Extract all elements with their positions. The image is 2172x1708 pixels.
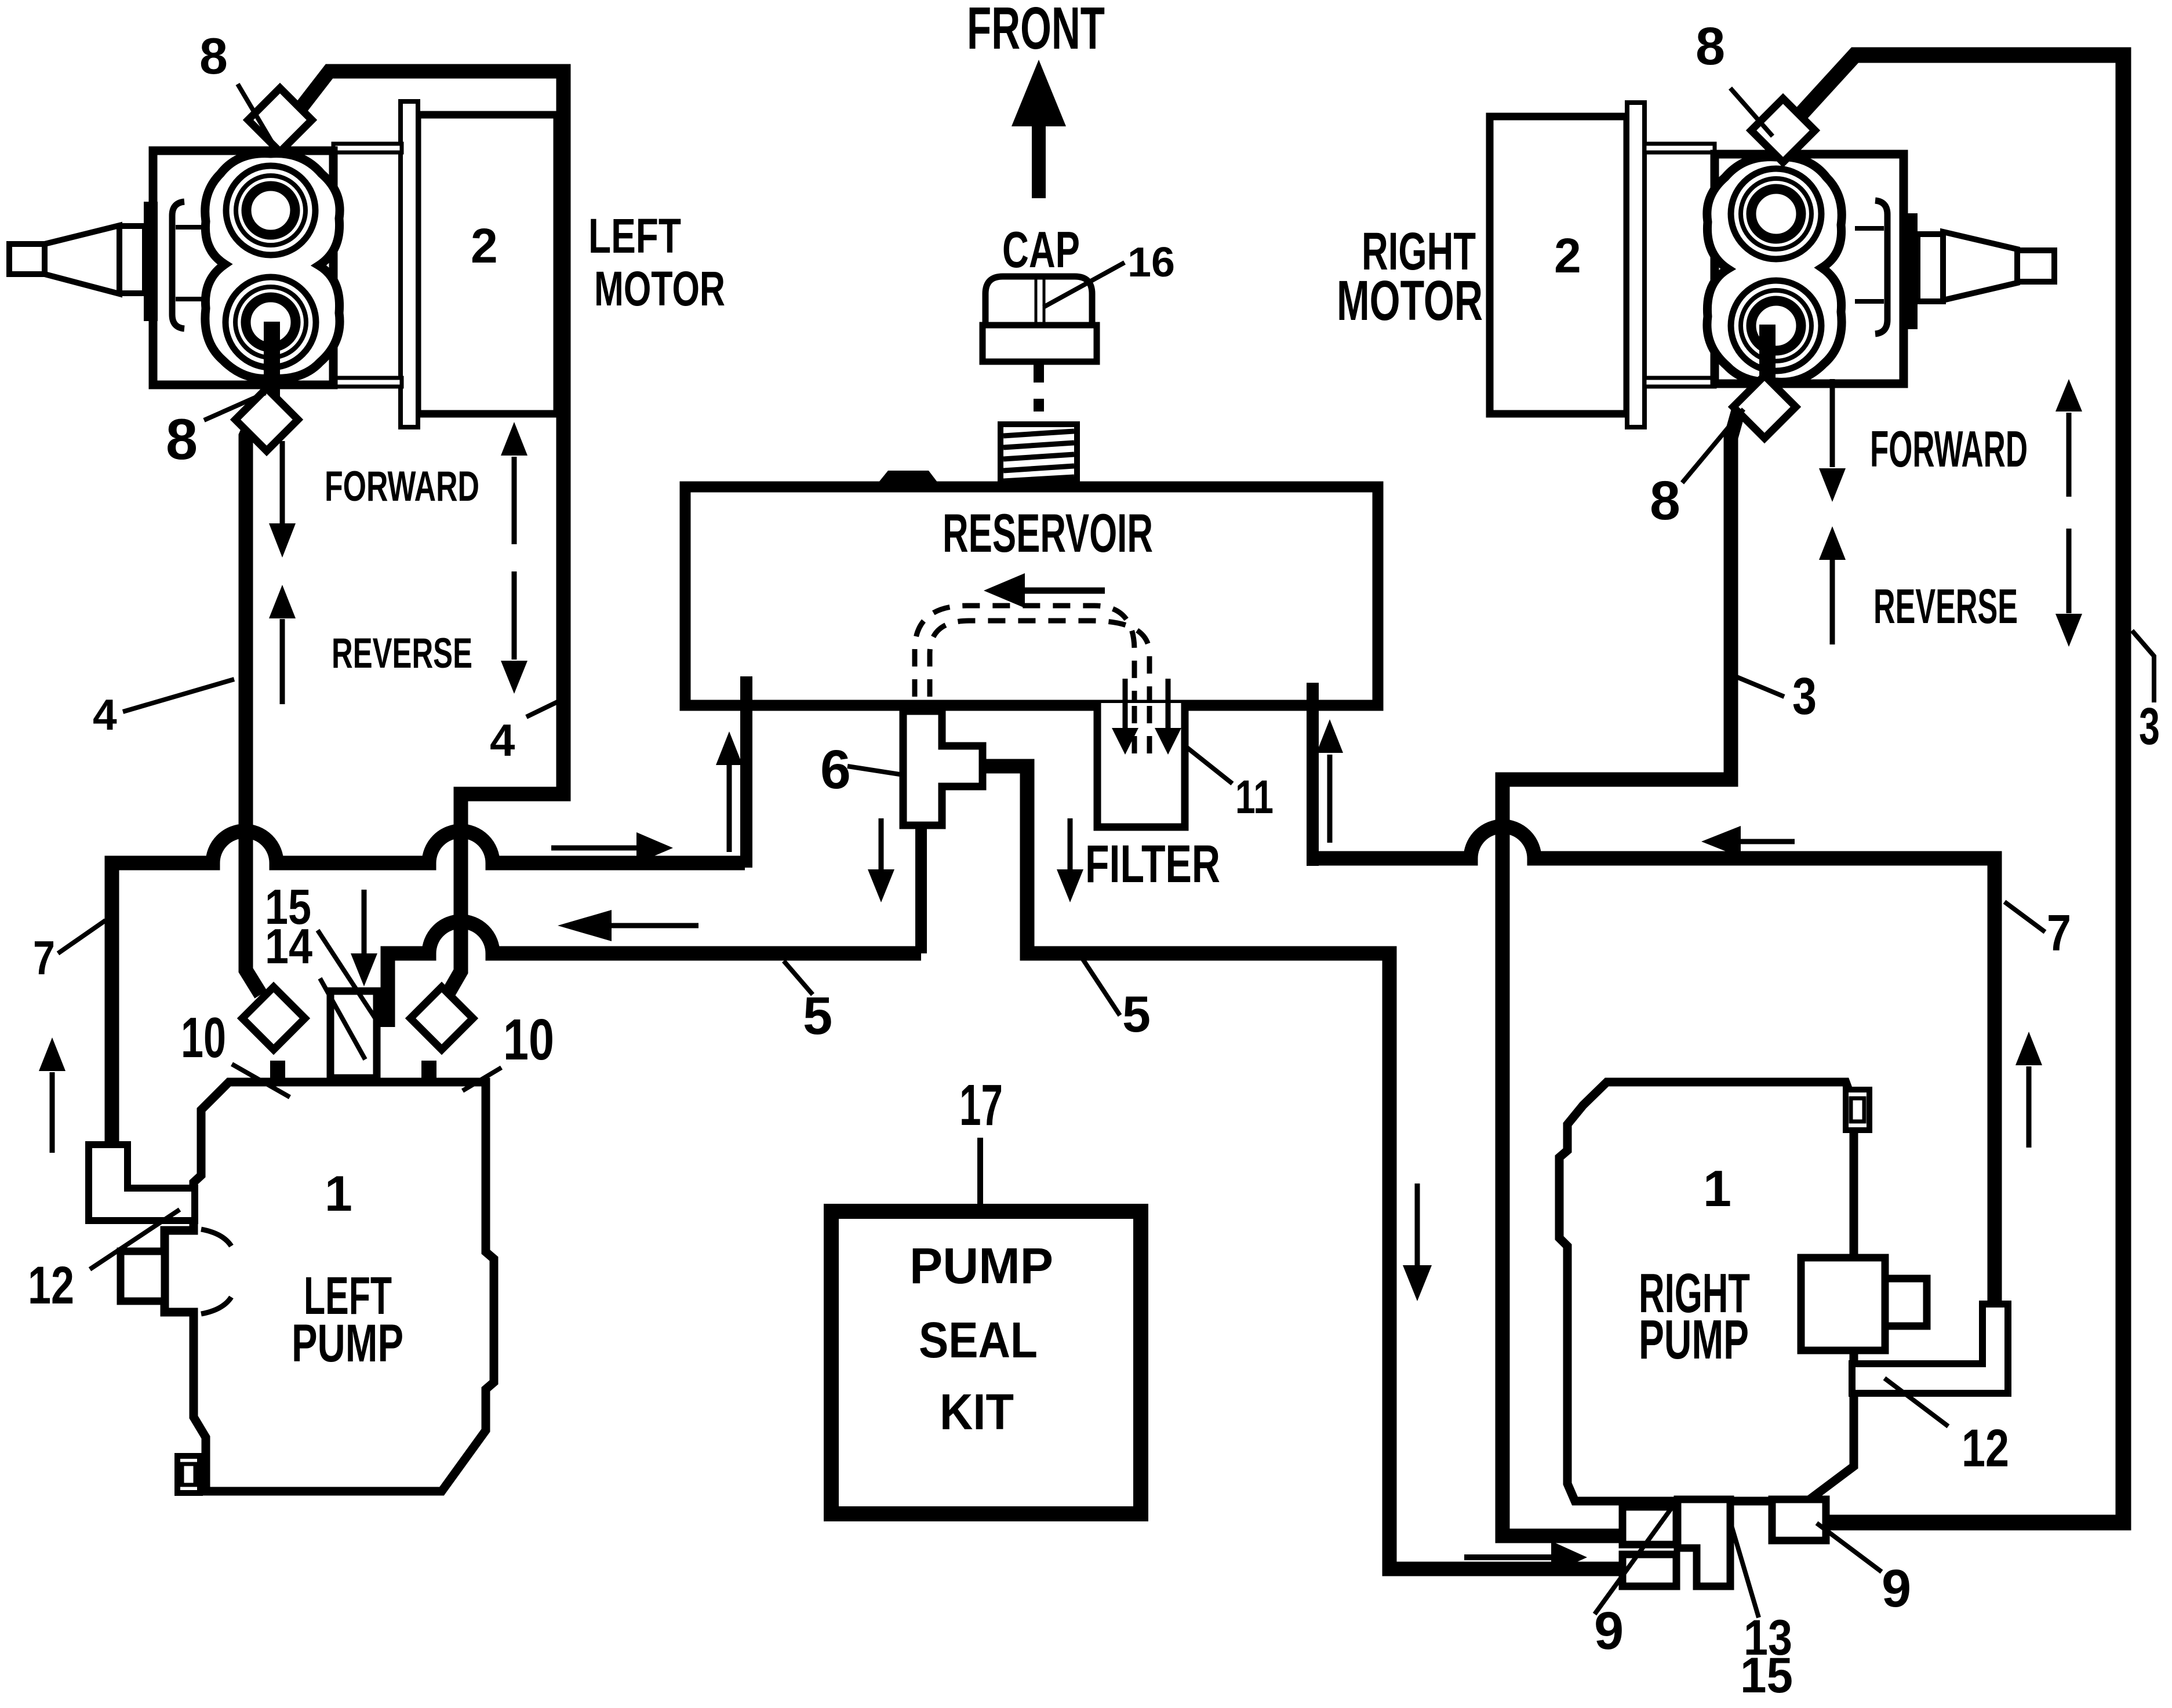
left pump fitting 10 right (410, 987, 473, 1050)
svg-text:8: 8 (166, 407, 198, 471)
svg-text:10: 10 (503, 1007, 554, 1072)
left motor bottom port rings (225, 277, 316, 367)
svg-text:2: 2 (471, 218, 498, 273)
pump seal kit box 17 (831, 1211, 1141, 1514)
forward arrow left outer (501, 422, 527, 544)
right motor axle seal band (1904, 213, 1918, 329)
svg-text:FORWARD: FORWARD (325, 463, 479, 510)
left pump elbow fitting 12 (89, 1145, 195, 1221)
filter tube 11 (1097, 703, 1185, 827)
left motor axle cone (45, 225, 119, 294)
wire hose 7 right: reservoir right port to right pump elbow 12 (1312, 826, 1995, 1310)
wire hose 3 upper: right motor top port along far right to pump bottom fitting 9 (1793, 55, 2123, 1523)
svg-text:14: 14 (265, 919, 312, 974)
svg-text:11: 11 (1235, 771, 1274, 824)
svg-text:MOTOR: MOTOR (1337, 269, 1483, 332)
front direction arrow (1012, 60, 1066, 198)
wire hose 7 left: reservoir left port to left pump elbow 12 (112, 831, 745, 1156)
svg-text:5: 5 (803, 986, 832, 1046)
wire dashed hose tail in filter (1134, 706, 1149, 753)
wire hose 5 left: left pump fitting 15 to tee (388, 922, 921, 1027)
left pump port stub left (270, 1061, 285, 1082)
leader 12 left (90, 1210, 180, 1269)
flow arrow up right port (1316, 719, 1343, 843)
svg-text:PUMP: PUMP (292, 1314, 403, 1373)
right motor retaining bracket (1875, 201, 1887, 334)
flow arrow up on hose 7 right (2015, 1032, 2042, 1148)
flow arrow down at filter label (1057, 818, 1083, 902)
leader 3 left (1737, 677, 1784, 697)
leader 9 left (1595, 1501, 1677, 1614)
svg-text:FRONT: FRONT (967, 0, 1105, 61)
right pump side slot fitting (1801, 1258, 1885, 1350)
right motor axle cylinder (1918, 234, 1943, 301)
cap 16 divider (1036, 278, 1044, 323)
leader 4 left (123, 679, 234, 712)
leader 15 (318, 930, 376, 1019)
left motor bottom port stem (264, 322, 280, 400)
leader 17 (977, 1138, 983, 1211)
right motor bottom fitting 8 (1733, 376, 1796, 438)
right motor axle cone (1943, 232, 2017, 300)
wire dashed siphon hose in reservoir (915, 606, 1149, 756)
left pump body 1 (165, 1082, 494, 1491)
svg-text:5: 5 (1122, 985, 1151, 1043)
cap 16 flange (983, 325, 1097, 362)
svg-text:6: 6 (820, 739, 851, 800)
leader 7 right (2004, 902, 2045, 932)
leader 6 (847, 766, 900, 774)
leader 5 left (784, 961, 813, 995)
svg-text:LEFT: LEFT (588, 209, 681, 263)
svg-text:RESERVOIR: RESERVOIR (943, 502, 1153, 563)
flow arrow down at pump fitting 14 (351, 890, 377, 986)
forward arrow right outer (2055, 379, 2082, 497)
left pump inlet clip curves (201, 1229, 231, 1314)
cap 16 stem (1034, 362, 1044, 411)
right pump body 1 (1559, 1082, 1854, 1501)
flow arrow left toward reservoir right port (1701, 826, 1795, 857)
svg-text:KIT: KIT (940, 1384, 1014, 1440)
svg-text:7: 7 (33, 931, 55, 985)
left pump square fitting 12 (121, 1251, 165, 1301)
right motor bottom port stem (1759, 325, 1776, 400)
svg-text:FORWARD: FORWARD (1870, 420, 2028, 478)
right pump fitting 9 right (1772, 1499, 1826, 1541)
left motor axle cylinder (119, 226, 145, 293)
cap 16 top (985, 276, 1092, 325)
svg-text:10: 10 (181, 1006, 226, 1069)
right motor lower ear (1645, 378, 1715, 387)
svg-text:1: 1 (325, 1166, 352, 1222)
left motor axle seal band (144, 202, 158, 321)
reservoir tank (685, 487, 1378, 705)
flow arrow up on hose 7 left (39, 1037, 66, 1153)
svg-text:8: 8 (1650, 470, 1680, 531)
flow arrow down center (1403, 1183, 1432, 1301)
left motor bracket ticks (176, 227, 209, 299)
svg-text:2: 2 (1554, 228, 1581, 283)
reverse arrow right outer (2055, 529, 2082, 647)
right pump drain stem (1665, 1499, 1679, 1545)
flow arrow left on hose 5 (558, 910, 698, 941)
svg-text:SEAL: SEAL (919, 1312, 1038, 1368)
svg-text:3: 3 (2139, 698, 2160, 756)
left pump fitting 14 15 (330, 991, 377, 1078)
svg-text:MOTOR: MOTOR (594, 261, 725, 316)
left motor mount plate (401, 101, 418, 427)
right motor axle tip (2017, 250, 2054, 282)
leader 8 top left (238, 84, 274, 145)
svg-text:8: 8 (199, 27, 228, 85)
leader 13 15 (1731, 1524, 1759, 1618)
wire tee bottom leg (915, 823, 927, 953)
left motor lower ear (333, 378, 402, 387)
leader 9 right (1817, 1523, 1882, 1572)
svg-text:7: 7 (2047, 904, 2071, 962)
leader 12 right (1884, 1378, 1948, 1426)
node reservoir left port (740, 676, 752, 868)
leader 16 (1043, 263, 1125, 307)
left motor housing 2 (417, 115, 557, 414)
right motor port saddle (1707, 157, 1842, 383)
left motor upper ear (333, 144, 402, 152)
leader 7 left (58, 920, 105, 953)
wire hose 5 right: tee to right pump bottom fitting (980, 766, 1626, 1569)
flow arrow down left of tee (868, 818, 894, 902)
leader 5 right (1082, 957, 1120, 1015)
svg-text:3: 3 (1792, 668, 1817, 726)
left motor bottom fitting 8 (235, 388, 298, 451)
left motor top port rings (226, 166, 315, 255)
wire hose 4 lower: left motor bottom port down to pump fitting 10L (246, 409, 261, 995)
svg-text:PUMP: PUMP (909, 1238, 1053, 1294)
right motor bottom port rings (1731, 281, 1821, 371)
svg-text:8: 8 (1696, 17, 1725, 76)
left pump fitting 10 left (242, 987, 305, 1050)
svg-text:16: 16 (1127, 239, 1175, 286)
svg-text:CAP: CAP (1002, 221, 1080, 278)
wire hose 4 upper: left motor top port to pump fitting 10R (301, 71, 563, 995)
leader 11 (1187, 748, 1232, 784)
flow arrow right at right pump drain (1464, 1541, 1587, 1574)
reservoir threaded neck (1000, 424, 1077, 482)
flow arrow up left port (716, 731, 743, 852)
svg-text:4: 4 (490, 715, 515, 766)
reservoir neck threads (1003, 431, 1074, 481)
svg-text:15: 15 (1740, 1648, 1793, 1703)
left motor retaining bracket (172, 202, 184, 329)
svg-text:1: 1 (1703, 1160, 1731, 1217)
leader 10 left (232, 1064, 290, 1097)
reverse arrow left inner (269, 585, 296, 704)
right motor upper ear (1645, 144, 1715, 152)
flow arrow into reservoir left port (551, 832, 673, 864)
right motor top fitting 8 (1751, 99, 1815, 162)
left pump port stub center (347, 1065, 369, 1082)
left motor top fitting 8 (248, 88, 312, 152)
flow arrow left in reservoir (984, 573, 1105, 608)
leader 8 bottom right (1682, 409, 1744, 483)
leader 10 right (463, 1068, 501, 1091)
right motor top port rings (1731, 169, 1821, 259)
leader 3 right (2132, 631, 2154, 702)
tee fitting 6 (903, 711, 983, 825)
leader 8 top right (1730, 88, 1773, 136)
svg-text:REVERSE: REVERSE (332, 630, 472, 677)
svg-text:12: 12 (28, 1256, 74, 1315)
svg-text:4: 4 (93, 690, 117, 739)
right pump elbow pipe 12 (1852, 1304, 2008, 1393)
right pump vent fitting (1846, 1090, 1869, 1130)
leader 8 bottom left (204, 393, 265, 420)
left pump grease fitting (177, 1456, 200, 1493)
left motor port saddle (205, 154, 340, 379)
right motor housing 2 (1490, 116, 1627, 414)
forward arrow right inner (1819, 379, 1846, 502)
reservoir mount pad (878, 471, 938, 483)
left motor axle tip (9, 244, 45, 274)
node reservoir right port (1307, 683, 1319, 866)
right pump fitting 9 upper left (1622, 1507, 1676, 1545)
left motor block (153, 151, 333, 385)
leader 4 right (526, 698, 565, 717)
forward arrow left inner (269, 441, 296, 558)
leader 14 (320, 978, 365, 1059)
right pump fitting 13 15 (1678, 1499, 1730, 1586)
left pump port stub right (421, 1061, 436, 1082)
right motor bracket ticks (1855, 228, 1884, 301)
right pump fitting lower left (1622, 1554, 1676, 1586)
right motor block (1715, 154, 1904, 384)
svg-text:17: 17 (959, 1073, 1003, 1138)
reverse arrow left outer (501, 571, 527, 694)
reverse arrow right inner (1819, 526, 1846, 644)
flow arrows into filter (1112, 679, 1181, 755)
svg-text:FILTER: FILTER (1085, 835, 1220, 894)
svg-text:12: 12 (1962, 1419, 2009, 1478)
svg-text:REVERSE: REVERSE (1873, 579, 2018, 633)
svg-text:9: 9 (1882, 1559, 1911, 1618)
svg-text:PUMP: PUMP (1639, 1309, 1749, 1371)
right motor mount plate (1627, 103, 1645, 427)
wire hose 3 lower: right motor bottom port to right pump bottom fitting (1502, 409, 1739, 1536)
